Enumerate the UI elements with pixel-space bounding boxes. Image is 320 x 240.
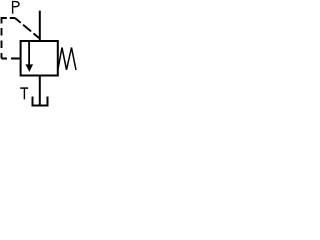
flow arrow head [26,64,34,72]
tank symbol [33,97,48,106]
tank line T [39,76,41,106]
spring (zigzag) on right side [58,48,76,71]
pilot line (dashed) bottom horizontal segment into valve [2,58,21,60]
pilot line (dashed) top horizontal segment [1,17,16,19]
pilot line (dashed) diagonal segment to P line tap [15,18,40,39]
valve body square [21,41,58,76]
port label T (drawn as vector glyph) [20,88,28,99]
pressure supply line P [39,11,41,41]
flow arrow (closed position, offset) shaft [28,42,30,66]
pilot line (dashed) left vertical segment [1,18,3,59]
port label P (drawn as vector glyph) [13,1,19,14]
